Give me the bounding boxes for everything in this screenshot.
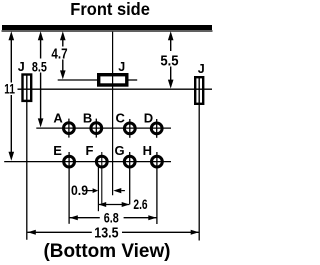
svg-text:A: A [53,110,63,125]
svg-text:F: F [86,143,94,158]
svg-text:4.7: 4.7 [51,47,67,63]
svg-text:0.9: 0.9 [71,182,88,198]
svg-text:Front side: Front side [70,0,150,19]
svg-text:13.5: 13.5 [94,225,118,241]
svg-text:J: J [118,60,125,74]
svg-text:J: J [18,60,25,74]
svg-text:H: H [143,143,152,158]
svg-text:E: E [53,143,62,158]
svg-text:G: G [115,143,125,158]
svg-text:J: J [198,62,205,76]
svg-text:11: 11 [4,80,15,96]
svg-text:(Bottom View): (Bottom View) [44,241,171,262]
svg-text:2.6: 2.6 [133,196,147,212]
svg-text:8.5: 8.5 [32,58,47,74]
svg-text:D: D [144,110,153,125]
svg-text:C: C [116,111,126,126]
svg-text:B: B [83,110,92,125]
svg-text:6.8: 6.8 [104,210,119,226]
svg-text:5.5: 5.5 [160,53,178,70]
